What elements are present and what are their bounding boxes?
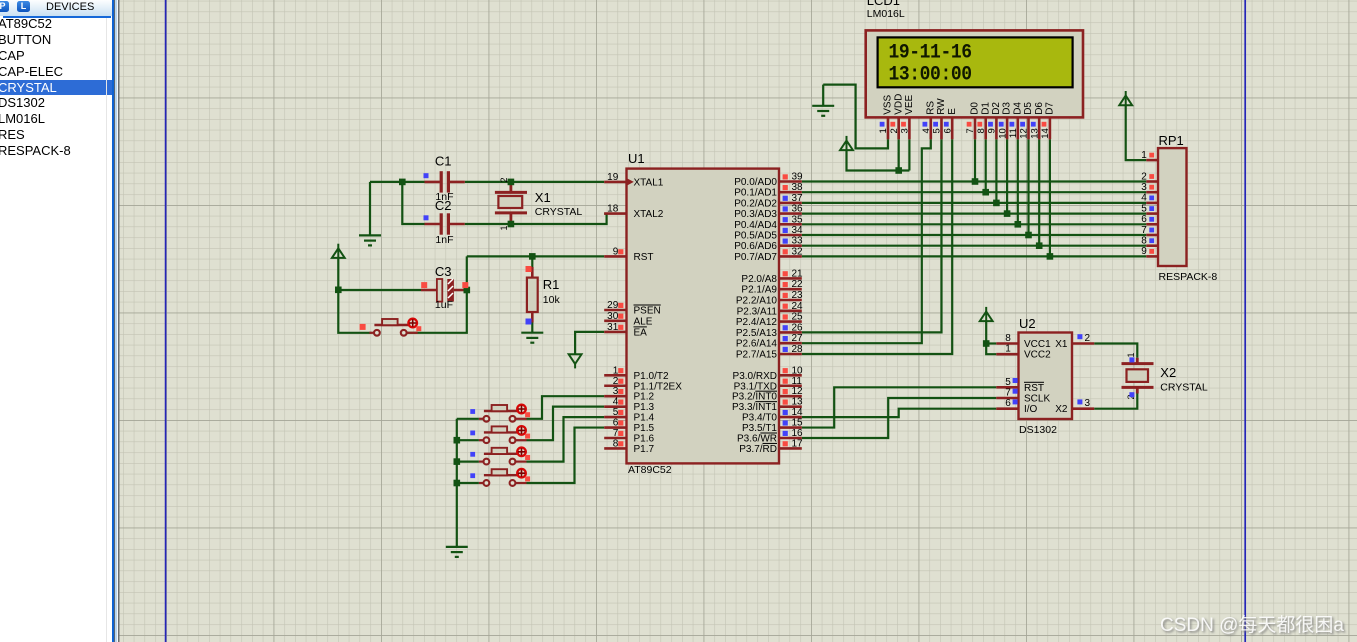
svg-text:34: 34: [792, 225, 804, 236]
C2 pin leads: [425, 223, 465, 226]
U1 pin 6 P1.5: [604, 418, 626, 429]
svg-text:28: 28: [792, 344, 804, 355]
svg-text:1: 1: [613, 365, 619, 376]
R1 state squares: [526, 266, 532, 272]
sheet border right: [1244, 0, 1246, 642]
U1 pin 38 P0.1/AD1: [779, 182, 803, 193]
junction C1 left / ground: [399, 179, 406, 186]
U1 pin 32 P0.7/AD7: [779, 246, 803, 257]
svg-text:2: 2: [499, 177, 509, 182]
wire U1 P3.5 to U2 RST: [802, 387, 997, 427]
wire P0.3 bus U1 pin36 to RP1 pin5: [802, 213, 1147, 215]
LCD pin 11 D4: [1008, 102, 1023, 140]
svg-text:D2: D2: [991, 102, 1002, 115]
U1 port labels right: [732, 177, 777, 455]
svg-text:P3.1/TXD: P3.1/TXD: [734, 381, 777, 392]
svg-text:10: 10: [997, 128, 1008, 139]
crystal X2: [1122, 364, 1154, 388]
svg-text:4: 4: [613, 397, 619, 408]
svg-text:C1: C1: [435, 154, 452, 169]
LCD pin 1 VSS: [878, 94, 893, 139]
wire key1 left: [457, 418, 479, 420]
svg-text:11: 11: [1008, 128, 1019, 138]
U1 pin 26 P2.5/A13: [779, 322, 803, 333]
power VCC arrow RP1 pin1: [1119, 91, 1132, 105]
svg-text:E: E: [947, 108, 958, 115]
wire LCD pin2 vertical: [898, 139, 900, 170]
wire LCD D6 vertical to P0.6 bus: [1038, 139, 1040, 245]
junction R1 / RST net: [529, 253, 536, 260]
svg-text:16: 16: [792, 428, 804, 439]
svg-text:VDD: VDD: [893, 94, 904, 115]
svg-text:10k: 10k: [543, 294, 561, 306]
U1 pin 27 P2.6/A14: [779, 333, 803, 344]
svg-text:CRYSTAL: CRYSTAL: [535, 206, 583, 218]
U1 pin 19 XTAL1: [604, 172, 634, 185]
wire P0.0 bus U1 pin39 to RP1 pin2: [802, 180, 1147, 182]
LCD pin 5 RW: [932, 98, 947, 140]
svg-text:P0.2/AD2: P0.2/AD2: [734, 198, 777, 209]
push button key 2 (P1.3): [470, 426, 530, 443]
junction VCC stem / C3 left: [335, 287, 342, 294]
svg-text:SCLK: SCLK: [1024, 394, 1050, 405]
junction VCC rail / LCD pin2: [895, 167, 902, 174]
U1 pin 30 ALE: [604, 311, 626, 322]
svg-text:7: 7: [965, 128, 976, 133]
U1 pin 37 P0.2/AD2: [779, 193, 803, 204]
svg-text:CRYSTAL: CRYSTAL: [1160, 382, 1208, 394]
U1 pin 8 P1.7: [604, 438, 626, 449]
U1 pin 33 P0.6/AD6: [779, 236, 803, 247]
LCD pin 3 VEE: [900, 94, 915, 139]
svg-text:7: 7: [613, 428, 619, 439]
wire EA to power-down arrow: [575, 332, 604, 354]
svg-text:XTAL1: XTAL1: [634, 177, 664, 188]
wire XTAL2 net: C2/X1 to U1 pin18: [465, 214, 607, 224]
svg-text:19-11-16: 19-11-16: [889, 41, 972, 64]
U1 pin 7 P1.6: [604, 428, 626, 439]
svg-text:VSS: VSS: [883, 94, 894, 114]
wire key2 left: [457, 439, 479, 441]
U1 pin 36 P0.3/AD3: [779, 204, 803, 215]
RP1 pin 9: [1141, 246, 1158, 257]
RP1 pin 8: [1141, 236, 1158, 247]
svg-text:31: 31: [607, 322, 619, 333]
junction button bus key2: [454, 437, 461, 444]
svg-text:P3.3/INT1: P3.3/INT1: [732, 402, 777, 413]
X2 pin leads: [1136, 358, 1139, 394]
svg-text:P1.4: P1.4: [634, 413, 655, 424]
svg-text:X2: X2: [1055, 404, 1068, 415]
U1 pin 10 P3.0: [779, 365, 803, 376]
svg-text:17: 17: [792, 438, 804, 449]
electrolytic capacitor C3: [437, 279, 454, 302]
wire LCD D1 vertical to P0.1 bus: [985, 139, 987, 192]
svg-text:RW: RW: [936, 98, 947, 115]
power VCC arrow near RST circuit: [332, 244, 345, 258]
svg-text:8: 8: [976, 128, 987, 133]
wire RST node vertical C3-button: [407, 256, 467, 332]
RP1 pin 5: [1141, 203, 1158, 214]
svg-text:19: 19: [607, 172, 619, 183]
svg-text:14: 14: [1040, 128, 1051, 139]
svg-text:6: 6: [1005, 398, 1011, 409]
U1 pin 3 P1.2: [604, 386, 626, 397]
U2 pin 6 I/O: [996, 398, 1018, 409]
svg-text:21: 21: [792, 268, 804, 279]
wire key4 to U1 P1.5: [527, 428, 605, 483]
R1 pin leads: [531, 267, 534, 323]
svg-text:P3.2/INT0: P3.2/INT0: [732, 392, 777, 403]
svg-text:D5: D5: [1023, 102, 1034, 115]
ground LCD VSS: [812, 106, 834, 116]
svg-text:29: 29: [607, 300, 619, 311]
wire C3 left lead: [338, 289, 421, 291]
power VCC arrow LCD VDD: [840, 136, 853, 150]
U1 pin 29 PSEN: [604, 300, 626, 311]
svg-text:P2.6/A14: P2.6/A14: [736, 339, 778, 350]
C3 state squares: [421, 282, 427, 288]
svg-text:EA: EA: [634, 327, 648, 338]
svg-text:P1.5: P1.5: [634, 423, 655, 434]
wire P0.2 bus U1 pin37 to RP1 pin4: [802, 202, 1147, 204]
U1 pin 25 P2.4/A12: [779, 312, 803, 323]
svg-text:CSDN @每天都很困a: CSDN @每天都很困a: [1160, 614, 1344, 636]
svg-text:LCD1: LCD1: [867, 0, 900, 8]
junction X1 bottom / XTAL2 net: [508, 221, 515, 228]
svg-text:2: 2: [889, 128, 900, 133]
svg-text:C2: C2: [435, 198, 452, 213]
svg-text:33: 33: [792, 236, 804, 247]
svg-text:P0.7/AD7: P0.7/AD7: [734, 252, 777, 263]
svg-text:P2.4/A12: P2.4/A12: [736, 317, 778, 328]
svg-text:8: 8: [1141, 236, 1147, 247]
svg-text:DS1302: DS1302: [1019, 424, 1057, 436]
svg-text:D4: D4: [1012, 102, 1023, 115]
power-down arrow EA net: [569, 354, 582, 368]
svg-text:I/O: I/O: [1024, 404, 1038, 415]
svg-text:13:00:00: 13:00:00: [889, 63, 972, 86]
LCD pin 7 D0: [965, 102, 980, 140]
junction D7 / P0.7: [1047, 253, 1054, 260]
svg-text:23: 23: [792, 290, 804, 301]
wire U1 P3.6 to U2 SCLK: [802, 398, 997, 438]
svg-text:2: 2: [613, 376, 619, 387]
svg-text:P1.2: P1.2: [634, 392, 655, 403]
wire key4 left: [457, 482, 479, 484]
wire U2 VCC net: [986, 321, 996, 354]
svg-text:6: 6: [942, 128, 953, 133]
LCD pin 6 E: [942, 108, 957, 140]
U1 pin 23 P2.2/A10: [779, 290, 803, 301]
LCD pin 2 VDD: [889, 94, 904, 140]
U1 pin 35 P0.4/AD4: [779, 214, 803, 225]
svg-text:38: 38: [792, 182, 804, 193]
svg-text:14: 14: [792, 407, 804, 418]
svg-text:37: 37: [792, 193, 804, 204]
wire P0.4 bus U1 pin35 to RP1 pin6: [802, 223, 1147, 225]
U1 pin 17 P3.7: [779, 438, 803, 449]
svg-text:RST: RST: [634, 252, 654, 263]
wire LCD VSS pin1 to ground: [823, 85, 888, 149]
svg-text:5: 5: [613, 407, 619, 418]
svg-text:P1.1/T2EX: P1.1/T2EX: [634, 381, 683, 392]
svg-text:P0.3/AD3: P0.3/AD3: [734, 209, 777, 220]
svg-text:1nF: 1nF: [435, 234, 453, 246]
svg-text:P1.6: P1.6: [634, 434, 655, 445]
svg-text:P2.7/A15: P2.7/A15: [736, 350, 778, 361]
wire R1 top lead: [531, 256, 533, 267]
svg-text:10: 10: [792, 365, 804, 376]
svg-text:PSEN: PSEN: [634, 306, 661, 317]
svg-text:2: 2: [1141, 171, 1147, 182]
svg-text:VCC2: VCC2: [1024, 350, 1051, 361]
svg-text:18: 18: [607, 204, 619, 215]
svg-text:22: 22: [792, 279, 804, 290]
U2 pin 2 X1: [1072, 333, 1094, 344]
junction D0 / P0.0: [972, 178, 979, 185]
U2 pin 7 SCLK: [996, 388, 1018, 399]
LCD pin 8 D1: [976, 102, 991, 140]
svg-text:4: 4: [1141, 193, 1147, 204]
U1 pin 39 P0.0/AD0: [779, 172, 803, 183]
svg-text:C3: C3: [435, 264, 452, 279]
push button key 4 (P1.5): [470, 469, 530, 486]
svg-text:6: 6: [613, 418, 619, 429]
wire key1 to U1 P1.2: [527, 396, 605, 419]
RP1 pin 2: [1141, 171, 1158, 182]
U1 pin 13 P3.3: [779, 397, 803, 408]
svg-text:9: 9: [1141, 246, 1147, 257]
svg-text:XTAL2: XTAL2: [634, 209, 664, 220]
svg-text:D3: D3: [1002, 102, 1013, 115]
svg-text:35: 35: [792, 214, 804, 225]
wire P0.7 bus U1 pin32 to RP1 pin9: [802, 255, 1147, 257]
C2 state square: [424, 215, 429, 220]
svg-text:P2.1/A9: P2.1/A9: [741, 285, 777, 296]
junction button bus key3: [454, 458, 461, 465]
wire key3 to U1 P1.4: [527, 417, 605, 462]
svg-text:8: 8: [613, 438, 619, 449]
svg-text:P0.1/AD1: P0.1/AD1: [734, 188, 777, 199]
wire P0.1 bus U1 pin38 to RP1 pin3: [802, 191, 1147, 193]
U1 pin 9 RST: [604, 246, 626, 257]
svg-text:D1: D1: [980, 102, 991, 115]
wire LCD pin3 vertical: [908, 139, 910, 170]
junction D6 / P0.6: [1036, 242, 1043, 249]
push button RST key: [360, 319, 422, 336]
svg-text:RST: RST: [1024, 383, 1044, 394]
svg-text:P2.3/A11: P2.3/A11: [737, 306, 778, 317]
svg-text:7: 7: [1141, 225, 1147, 236]
svg-text:P1.7: P1.7: [634, 444, 655, 455]
LCD pin 10 D3: [997, 102, 1012, 140]
svg-text:3: 3: [900, 128, 911, 133]
wire RP1 pin1 to VCC: [1126, 105, 1147, 160]
svg-text:27: 27: [792, 333, 804, 344]
svg-text:1uF: 1uF: [435, 299, 453, 311]
LCD pin 12 D5: [1019, 102, 1034, 140]
wire ground stem C1C2: [369, 182, 371, 236]
wire U2 VCC1 branch: [986, 342, 996, 344]
wire LCD D2 vertical to P0.2 bus: [995, 139, 997, 203]
svg-text:32: 32: [792, 246, 804, 257]
U1 pin 24 P2.3/A11: [779, 301, 803, 312]
svg-text:P1.0/T2: P1.0/T2: [634, 371, 669, 382]
junction U2 VCC1/VCC2: [983, 340, 990, 347]
C1 state square: [424, 173, 429, 178]
U2 port labels: [1024, 339, 1068, 415]
U1 pin 11 P3.1: [779, 376, 802, 387]
resistor R1 10k: [527, 278, 538, 312]
wire XTAL1 net: ground/C1/X1 to U1 pin19: [370, 181, 604, 183]
wire LCD D0 vertical to P0.0 bus: [974, 139, 976, 181]
junction X1 top / XTAL1 net: [508, 179, 515, 186]
U1 pin 4 P1.3: [604, 397, 626, 408]
svg-text:1: 1: [878, 128, 889, 133]
U2 pin 5 RST: [996, 377, 1018, 388]
svg-text:X1: X1: [535, 190, 551, 205]
svg-text:3: 3: [1141, 182, 1147, 193]
svg-text:P3.5/T1: P3.5/T1: [742, 423, 777, 434]
wire LCD ground stem: [822, 85, 824, 106]
junction D4 / P0.4: [1015, 221, 1022, 228]
svg-text:6: 6: [1141, 214, 1147, 225]
svg-text:P0.4/AD4: P0.4/AD4: [734, 220, 777, 231]
svg-text:ALE: ALE: [634, 316, 653, 327]
U1 pin 15 P3.5: [779, 418, 803, 429]
wire P0.5 bus U1 pin34 to RP1 pin7: [802, 234, 1147, 236]
svg-text:1: 1: [499, 225, 509, 230]
LCD pin 14 D7: [1040, 102, 1055, 140]
junction D1 / P0.1: [982, 189, 989, 196]
svg-text:11: 11: [792, 376, 803, 387]
X2 pin state squares: [1129, 357, 1134, 362]
push button key 3 (P1.4): [470, 448, 530, 465]
svg-text:P3.7/RD: P3.7/RD: [739, 444, 777, 455]
svg-text:26: 26: [792, 322, 804, 333]
svg-text:D6: D6: [1034, 102, 1045, 115]
RP1 pin 6: [1141, 214, 1158, 225]
RP1 RESPACK-8 resistor pack: [1158, 133, 1217, 283]
svg-text:VEE: VEE: [904, 94, 915, 114]
wire LCD E pin6 to U1 P2.7: [802, 139, 952, 354]
U1 port labels left: [634, 177, 683, 455]
ground R1: [521, 333, 543, 343]
junction D5 / P0.5: [1025, 232, 1032, 239]
RP1 pin 1: [1141, 150, 1158, 161]
svg-text:VCC1: VCC1: [1024, 339, 1051, 350]
wire U2 X1 to crystal X2: [1094, 344, 1137, 358]
U2 pin 1 VCC2: [996, 344, 1018, 355]
U2 pin 3 X2: [1072, 398, 1094, 409]
U1 pin 18 XTAL2: [604, 204, 626, 215]
svg-text:9: 9: [613, 246, 619, 257]
svg-text:LM016L: LM016L: [867, 8, 905, 20]
svg-text:5: 5: [1141, 203, 1147, 214]
wire LCD D7 vertical to P0.7 bus: [1049, 139, 1051, 256]
svg-text:RP1: RP1: [1159, 133, 1184, 148]
svg-text:12: 12: [1019, 128, 1030, 139]
svg-text:7: 7: [1005, 388, 1011, 399]
wire VCC stem to button: [338, 258, 371, 333]
svg-text:R1: R1: [543, 277, 560, 292]
LCD pin 9 D2: [987, 102, 1002, 140]
svg-text:P3.4/T0: P3.4/T0: [742, 413, 777, 424]
wire LCD RS pin4 to U1 P2.6: [802, 139, 931, 343]
U1 pin 12 P3.2: [779, 386, 803, 397]
svg-text:12: 12: [792, 386, 804, 397]
U1 pin 5 P1.4: [604, 407, 626, 418]
wire LCD D3 vertical to P0.3 bus: [1006, 139, 1008, 213]
svg-text:1: 1: [1126, 353, 1136, 358]
wire LCD RW pin5 to U1 P2.5: [802, 139, 942, 332]
svg-text:D0: D0: [970, 102, 981, 115]
LCD pin 13 D6: [1029, 102, 1044, 140]
LCD pin 4 RS: [921, 101, 936, 140]
LCD1 LM016L display: [866, 30, 1083, 117]
svg-text:2: 2: [1085, 333, 1091, 344]
wire RST net horizontal: [467, 255, 604, 257]
svg-text:30: 30: [607, 311, 619, 322]
svg-text:U2: U2: [1019, 316, 1036, 331]
wire LCD D4 vertical to P0.4 bus: [1017, 139, 1019, 224]
svg-text:9: 9: [987, 128, 998, 133]
wire P0.6 bus U1 pin33 to RP1 pin8: [802, 245, 1147, 247]
wire X2 to U2 X2 pin: [1094, 394, 1137, 409]
svg-text:24: 24: [792, 301, 804, 312]
svg-text:RS: RS: [925, 101, 936, 115]
svg-text:P2.0/A8: P2.0/A8: [741, 274, 777, 285]
svg-text:25: 25: [792, 312, 804, 323]
wire C1-C2 left vertical: [402, 182, 424, 224]
svg-text:5: 5: [932, 128, 943, 133]
crystal X1: [495, 192, 527, 213]
wire key3 left: [457, 461, 479, 463]
svg-text:P2.2/A10: P2.2/A10: [736, 296, 778, 307]
svg-text:U1: U1: [628, 151, 645, 166]
U1 pin 14 P3.4: [779, 407, 803, 418]
IC U1 AT89C52 microcontroller: [627, 151, 780, 476]
wire key2 to U1 P1.3: [527, 407, 605, 441]
junction D3 / P0.3: [1004, 210, 1011, 217]
U1 pin 22 P2.1/A9: [779, 279, 803, 290]
svg-text:X2: X2: [1160, 365, 1176, 380]
svg-text:RESPACK-8: RESPACK-8: [1159, 271, 1218, 283]
U1 pin 2 P1.1: [604, 376, 626, 387]
junction D2 / P0.2: [993, 200, 1000, 207]
X1 pin leads: [509, 184, 512, 222]
svg-text:D7: D7: [1045, 102, 1056, 115]
capacitor C1: [440, 171, 450, 192]
svg-text:5: 5: [1005, 377, 1011, 388]
U1 pin 16 P3.6: [779, 428, 803, 439]
U2 pin 8 VCC1: [996, 333, 1018, 344]
svg-text:AT89C52: AT89C52: [628, 464, 672, 476]
power VCC arrow U2 supply: [980, 307, 993, 321]
svg-text:3: 3: [613, 386, 619, 397]
svg-text:3: 3: [1085, 398, 1091, 409]
wire VCC rail LCD pins2-3: [847, 150, 910, 170]
svg-text:P0.0/AD0: P0.0/AD0: [734, 177, 777, 188]
svg-text:8: 8: [1005, 333, 1011, 344]
sheet border left: [165, 0, 167, 642]
svg-text:P3.6/WR: P3.6/WR: [737, 434, 777, 445]
svg-text:P0.5/AD5: P0.5/AD5: [734, 231, 777, 242]
junction C3 / RST node: [464, 287, 471, 294]
svg-text:P2.5/A13: P2.5/A13: [736, 328, 778, 339]
C1 pin leads: [425, 181, 465, 184]
